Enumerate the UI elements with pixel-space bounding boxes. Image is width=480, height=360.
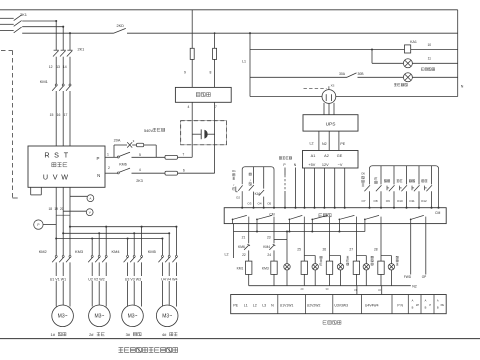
wire N bus top — [0, 9, 458, 11]
svg-text:T: T — [64, 151, 69, 160]
svg-text:U2V2W2: U2V2W2 — [307, 303, 321, 307]
svg-text:U1V1W1: U1V1W1 — [280, 303, 294, 307]
svg-text:14: 14 — [63, 65, 67, 69]
wire KM4 W drop — [141, 227, 143, 256]
svg-text:KM3: KM3 — [75, 249, 83, 254]
controller output contact 312.3 — [311, 219, 313, 223]
contactor KM4 pole U — [127, 255, 129, 257]
wire S drop — [62, 27, 64, 51]
float/pressure contact O11 — [418, 166, 420, 185]
svg-text:N2: N2 — [322, 142, 327, 146]
svg-text:A2: A2 — [324, 154, 329, 158]
svg-text:2K1: 2K1 — [78, 48, 85, 52]
contactor KM5 pole W — [175, 255, 177, 257]
wire KM5 V drop — [168, 233, 170, 255]
svg-text:2P: 2P — [416, 303, 419, 307]
common rail L2 — [233, 224, 235, 232]
wire branch row2 — [371, 48, 373, 50]
svg-text:P: P — [37, 223, 39, 227]
wire 5 segment — [132, 156, 166, 158]
node W bus tap — [69, 226, 71, 228]
node phase c drop — [69, 32, 71, 34]
wire V output — [62, 187, 64, 255]
wire L3 phase in — [0, 30, 14, 32]
wire 16 segment — [62, 91, 64, 146]
controller output contact 289.4 — [288, 219, 290, 223]
wire to cap bank - — [178, 172, 215, 174]
svg-text:O12: O12 — [421, 199, 427, 203]
stub to terminal strip a — [356, 286, 358, 295]
terminal divider — [420, 295, 422, 314]
motor M3 — [122, 305, 144, 327]
resistor R6 — [165, 171, 178, 175]
svg-text:P: P — [429, 303, 431, 307]
svg-text:M3~: M3~ — [162, 314, 172, 320]
motor M1 — [52, 305, 74, 327]
power supply box — [303, 151, 359, 169]
svg-text:O1: O1 — [232, 169, 236, 173]
socket XS dashed actuator — [304, 87, 327, 89]
svg-text:20: 20 — [60, 207, 64, 211]
node V bus tap — [62, 232, 64, 234]
DC source label — [279, 157, 281, 159]
svg-text:V: V — [53, 173, 58, 182]
wire L2 drop — [233, 232, 235, 259]
wire 13 segment — [62, 57, 64, 84]
svg-text:23: 23 — [267, 235, 271, 239]
svg-text:U1 V1 W1: U1 V1 W1 — [50, 277, 66, 281]
lamp branch KM2c — [381, 255, 391, 257]
coil column KM3 — [273, 224, 275, 262]
svg-text:O11: O11 — [409, 199, 415, 203]
svg-text:L3: L3 — [262, 303, 266, 307]
svg-text:4: 4 — [188, 105, 190, 109]
svg-text:M3~: M3~ — [128, 314, 138, 320]
wire KM3 V drop — [98, 233, 100, 255]
wire KM4 to motor — [127, 262, 129, 306]
svg-text:2KD: 2KD — [117, 24, 125, 28]
fuse F8 — [213, 48, 217, 59]
svg-text:7: 7 — [215, 105, 217, 109]
wire N right drop — [457, 10, 459, 97]
svg-text:30A: 30A — [339, 72, 346, 76]
svg-text:L2: L2 — [310, 142, 314, 146]
charger box — [175, 87, 231, 102]
relay coil KA1 — [405, 45, 411, 53]
svg-text:16: 16 — [57, 113, 61, 117]
svg-text:U2 V2 W2: U2 V2 W2 — [88, 277, 104, 281]
svg-text:OP: OP — [422, 275, 427, 279]
svg-text:A: A — [89, 197, 91, 201]
svg-text:KM6: KM6 — [119, 163, 127, 167]
wire KM3 to motor — [91, 262, 93, 306]
svg-text:N: N — [271, 303, 274, 307]
svg-text:O7: O7 — [361, 199, 365, 203]
svg-text:5: 5 — [139, 153, 141, 157]
switch 2K1 second pole c — [67, 49, 72, 51]
svg-text:PE: PE — [233, 303, 238, 307]
wire control feed after 2KD — [127, 32, 458, 34]
svg-text:O9: O9 — [386, 199, 390, 203]
contactor KM3 pole U — [91, 255, 93, 257]
svg-text:9: 9 — [184, 71, 186, 75]
svg-text:B: B — [412, 306, 414, 310]
svg-text:KM3: KM3 — [262, 267, 269, 271]
svg-text:P: P — [97, 156, 100, 161]
contactor KM5 pole U — [161, 255, 163, 257]
wire N to controller — [295, 168, 297, 208]
meter A — [87, 195, 94, 202]
switch 2K1 second pole b — [61, 49, 66, 51]
wire 14 segment — [69, 57, 71, 84]
wire R drop — [55, 21, 57, 50]
terminal divider — [433, 295, 435, 314]
svg-text:2: 2 — [108, 166, 110, 170]
meter Hz — [34, 220, 43, 229]
lamp HL1 vfd run — [403, 59, 412, 68]
wire KM4 V drop — [133, 233, 135, 255]
wire N2 from UPS — [328, 131, 330, 150]
wire L1 control drop — [249, 32, 251, 34]
svg-text:B: B — [425, 306, 427, 310]
svg-text:27: 27 — [349, 247, 353, 251]
lamp branch KM5c — [356, 255, 366, 257]
terminal divider — [332, 295, 334, 314]
row lamp power wire — [250, 76, 347, 78]
contactor KM3 pole V — [98, 255, 100, 257]
title — [118, 347, 123, 349]
bus N2 — [249, 285, 411, 287]
coil KM3 — [271, 261, 277, 274]
drawing border bottom — [0, 338, 480, 340]
svg-text:L2: L2 — [225, 253, 229, 257]
svg-text:17: 17 — [64, 113, 68, 117]
svg-text:4#: 4# — [162, 332, 167, 337]
row lamp run wire — [372, 62, 403, 64]
wires PSU to controller — [304, 168, 306, 208]
svg-text:O2: O2 — [236, 196, 240, 200]
wire phase b to drop — [22, 26, 63, 28]
coil KM2c — [378, 261, 384, 274]
lamp KM5c — [363, 264, 369, 270]
svg-text:1: 1 — [107, 152, 109, 156]
svg-text:21: 21 — [242, 235, 246, 239]
switch 2K1 pole a — [14, 15, 22, 21]
svg-text:−V: −V — [338, 163, 343, 167]
controller output contact 364.9 — [364, 219, 366, 223]
wire OP output — [425, 224, 427, 275]
socket XS for UPS — [322, 90, 336, 104]
svg-text:U4V4W4: U4V4W4 — [365, 303, 379, 307]
contactor KM1 pole a — [55, 84, 57, 86]
wire KM2 to motor — [55, 262, 57, 306]
svg-text:O10: O10 — [397, 199, 403, 203]
wire input col3 — [263, 167, 265, 208]
contactor KM6 pole P — [117, 156, 119, 158]
wire fuse 9 drop from N bus — [191, 10, 193, 49]
UPS box — [303, 115, 358, 131]
contactor KM5 pole V — [168, 255, 170, 257]
meter Hz stub — [43, 224, 56, 226]
svg-text:U: U — [43, 173, 48, 182]
wire P to controller — [284, 168, 286, 176]
wire KM5 U drop — [161, 239, 163, 256]
svg-text:12: 12 — [49, 65, 53, 69]
lamp KM4c — [337, 264, 343, 270]
svg-text:A: A — [425, 299, 427, 303]
wire PE from UPS — [338, 131, 340, 150]
svg-text:20A: 20A — [114, 138, 121, 142]
selector bracket — [235, 187, 237, 192]
wire input col2 — [253, 167, 255, 208]
terminal strip box — [231, 295, 447, 314]
fuse F9 — [190, 48, 194, 59]
svg-text:N2: N2 — [412, 285, 417, 289]
contactor KM1 pole b — [62, 84, 64, 86]
wire KM3 W drop — [105, 227, 107, 256]
svg-text:2K3: 2K3 — [136, 179, 143, 183]
terminal strip caption — [322, 321, 324, 325]
contactor KM4 pole V — [133, 255, 135, 257]
resistor R7 — [165, 155, 178, 159]
contactor KM4 pole W — [141, 255, 143, 257]
svg-text:U4 V4 W4: U4 V4 W4 — [161, 277, 177, 281]
motor M4 — [156, 305, 178, 327]
node U bus tap — [55, 237, 57, 239]
svg-text:N: N — [461, 85, 464, 89]
motor M2 — [89, 305, 111, 327]
svg-text:A: A — [412, 299, 414, 303]
capacitor C1 — [192, 133, 201, 135]
lamp branch KM4c — [330, 255, 341, 257]
svg-text:KA1: KA1 — [410, 40, 417, 44]
svg-text:L1: L1 — [242, 60, 246, 64]
svg-text:12V: 12V — [322, 163, 329, 167]
svg-text:U3V3W3: U3V3W3 — [334, 303, 348, 307]
svg-text:18: 18 — [49, 207, 53, 211]
lamp KM2 — [312, 264, 318, 270]
svg-text:O3: O3 — [247, 201, 251, 205]
wire KM4 U drop — [127, 239, 129, 256]
wire socket to UPS — [323, 103, 325, 115]
svg-text:UPS: UPS — [326, 121, 336, 127]
svg-text:2#: 2# — [89, 332, 94, 337]
svg-text:4: 4 — [139, 168, 141, 172]
capacitor bank dashed box 540V — [181, 121, 227, 145]
contactor KM1 pole c — [69, 84, 71, 86]
wire fuse 8 drop from L bus — [214, 32, 216, 34]
contactor KM2 pole W — [69, 255, 71, 257]
wire L2 phase in — [0, 23, 14, 25]
wire U output — [55, 187, 57, 255]
svg-text:A1: A1 — [311, 154, 316, 158]
bus V to pumps — [63, 232, 169, 234]
controller output contact 339.4 — [338, 219, 340, 223]
row socket wire — [250, 96, 458, 98]
svg-text:KM6: KM6 — [238, 245, 245, 249]
svg-text:25: 25 — [297, 247, 301, 251]
wire P from VFD — [105, 156, 117, 158]
meter V — [86, 209, 93, 216]
wire FWD output — [410, 224, 412, 275]
svg-text:11: 11 — [428, 57, 432, 61]
svg-text:30B: 30B — [357, 72, 364, 76]
svg-text:22: 22 — [242, 253, 246, 257]
wire KM5 W drop — [175, 227, 177, 256]
wire KM5 to motor — [161, 262, 163, 306]
float/pressure contact O7 — [364, 185, 370, 191]
svg-text:A: A — [437, 299, 439, 303]
coil column KM2c — [380, 224, 382, 262]
float/pressure contact O8 — [380, 166, 382, 185]
node phase a drop — [55, 20, 57, 22]
svg-text:W: W — [61, 173, 68, 182]
float/pressure contact O12 — [431, 166, 433, 185]
svg-text:L2: L2 — [253, 303, 257, 307]
coil column KM4c — [329, 224, 331, 262]
wire to cap bank + — [178, 156, 193, 158]
controller run contact FWD — [410, 219, 412, 223]
ground stub from VFD — [30, 187, 32, 195]
svg-text:R: R — [44, 151, 49, 160]
svg-text:P N: P N — [397, 303, 403, 307]
coil column KM1 — [248, 224, 250, 262]
wire T drop — [69, 33, 71, 50]
float/pressure contact O9 — [393, 166, 395, 185]
svg-text:28: 28 — [374, 247, 378, 251]
meter V stub — [63, 210, 86, 212]
wire KM3 U drop — [91, 239, 93, 256]
wire L1 phase in — [0, 17, 14, 19]
wire 12 segment — [55, 57, 57, 84]
switch 2K1 pole b — [14, 21, 22, 27]
contactor KM2 pole V — [62, 255, 64, 257]
svg-text:U3 V3 W3: U3 V3 W3 — [125, 277, 141, 281]
input bracket top — [242, 167, 274, 208]
wire W output — [69, 187, 71, 255]
wire 17 segment — [69, 91, 71, 146]
svg-text:GE: GE — [337, 154, 343, 158]
coil KM4c — [326, 261, 332, 274]
svg-text:/: / — [233, 183, 234, 187]
terminal divider — [360, 295, 362, 314]
svg-text:O4: O4 — [257, 201, 261, 205]
svg-text:540V: 540V — [144, 128, 153, 133]
svg-text:B: B — [437, 306, 439, 310]
svg-text:10: 10 — [427, 43, 431, 47]
svg-text:+5V: +5V — [308, 163, 315, 167]
svg-text:CM: CM — [435, 211, 440, 215]
svg-text:O5: O5 — [267, 201, 271, 205]
svg-text:V: V — [89, 211, 91, 215]
svg-text:PE: PE — [441, 303, 445, 307]
coil column KM5c — [355, 224, 357, 262]
wire phase a to drop — [22, 20, 56, 22]
svg-text:8: 8 — [210, 71, 212, 75]
resistor precharge — [132, 144, 136, 146]
controller output contact 232.6 — [232, 219, 234, 223]
contactor KM2 pole U — [55, 255, 57, 257]
wire N from VFD — [105, 172, 117, 174]
switch 2K1 pole c — [14, 27, 22, 33]
contact manual blade — [251, 184, 256, 192]
lamp KM2c — [388, 264, 394, 270]
coil KM5c — [353, 261, 359, 274]
svg-text:S: S — [54, 151, 59, 160]
svg-text:XS: XS — [331, 84, 335, 88]
svg-text:FWD: FWD — [404, 275, 412, 279]
contact O2 blade — [240, 184, 244, 191]
switch 2K1 second pole a — [54, 49, 59, 51]
coil column KM2 — [303, 224, 305, 262]
controller output contact 257 — [256, 219, 258, 223]
svg-text:L1: L1 — [244, 303, 248, 307]
svg-text:M3~: M3~ — [58, 314, 68, 320]
contactor KM3 pole W — [105, 255, 107, 257]
coil KM1 — [246, 261, 252, 274]
contact KA1 blade — [261, 189, 266, 197]
svg-text:M3~: M3~ — [94, 314, 104, 320]
terminal divider — [305, 295, 307, 314]
switch 2KD — [114, 28, 126, 33]
meter A stub — [70, 195, 87, 197]
svg-text:24: 24 — [267, 253, 271, 257]
svg-text:1#: 1# — [50, 332, 55, 337]
svg-text:2K1: 2K1 — [20, 12, 27, 17]
svg-text:KA1: KA1 — [255, 192, 261, 196]
terminal divider — [277, 295, 279, 314]
terminal divider — [391, 295, 393, 314]
svg-text:15: 15 — [50, 113, 54, 117]
bus W to pumps — [70, 226, 176, 228]
branch 23 to lamp 1 — [274, 238, 287, 240]
wire L2 from UPS — [318, 131, 320, 150]
svg-text:KM1: KM1 — [237, 267, 244, 271]
svg-text:KM1: KM1 — [40, 79, 48, 84]
svg-text:KM5: KM5 — [148, 249, 156, 254]
svg-text:KM4: KM4 — [263, 245, 270, 249]
svg-text:O8: O8 — [373, 199, 377, 203]
svg-text:PE: PE — [340, 142, 345, 146]
svg-text:O6: O6 — [361, 172, 365, 176]
terminal divider — [407, 295, 409, 314]
svg-text:19: 19 — [54, 207, 58, 211]
lamp branch KM2 — [304, 255, 315, 257]
svg-text:N: N — [97, 173, 100, 178]
float/pressure contact O10 — [406, 166, 408, 185]
svg-text:13: 13 — [56, 65, 60, 69]
VFD inverter U1 box — [28, 146, 105, 187]
wire 4 segment — [132, 172, 166, 174]
svg-text:3#: 3# — [126, 332, 131, 337]
enclosure dashed boundary — [1, 50, 13, 52]
link bar — [56, 214, 70, 216]
svg-text:7: 7 — [182, 153, 184, 157]
svg-text:KM4: KM4 — [112, 249, 121, 254]
bus U to pumps — [56, 238, 162, 240]
contactor KM6 pole N — [117, 172, 119, 174]
lamp pump1 — [284, 264, 290, 270]
coil KM2 — [301, 261, 307, 274]
bypass riser — [113, 145, 115, 157]
lamp HL2 power — [403, 73, 412, 82]
svg-text:26: 26 — [322, 247, 326, 251]
stub to terminal strip b — [381, 286, 383, 295]
svg-text:KM2: KM2 — [39, 249, 47, 254]
wire phase c / control feed — [22, 32, 113, 34]
controller box — [224, 208, 446, 224]
row KA1 coil wire — [250, 49, 405, 51]
